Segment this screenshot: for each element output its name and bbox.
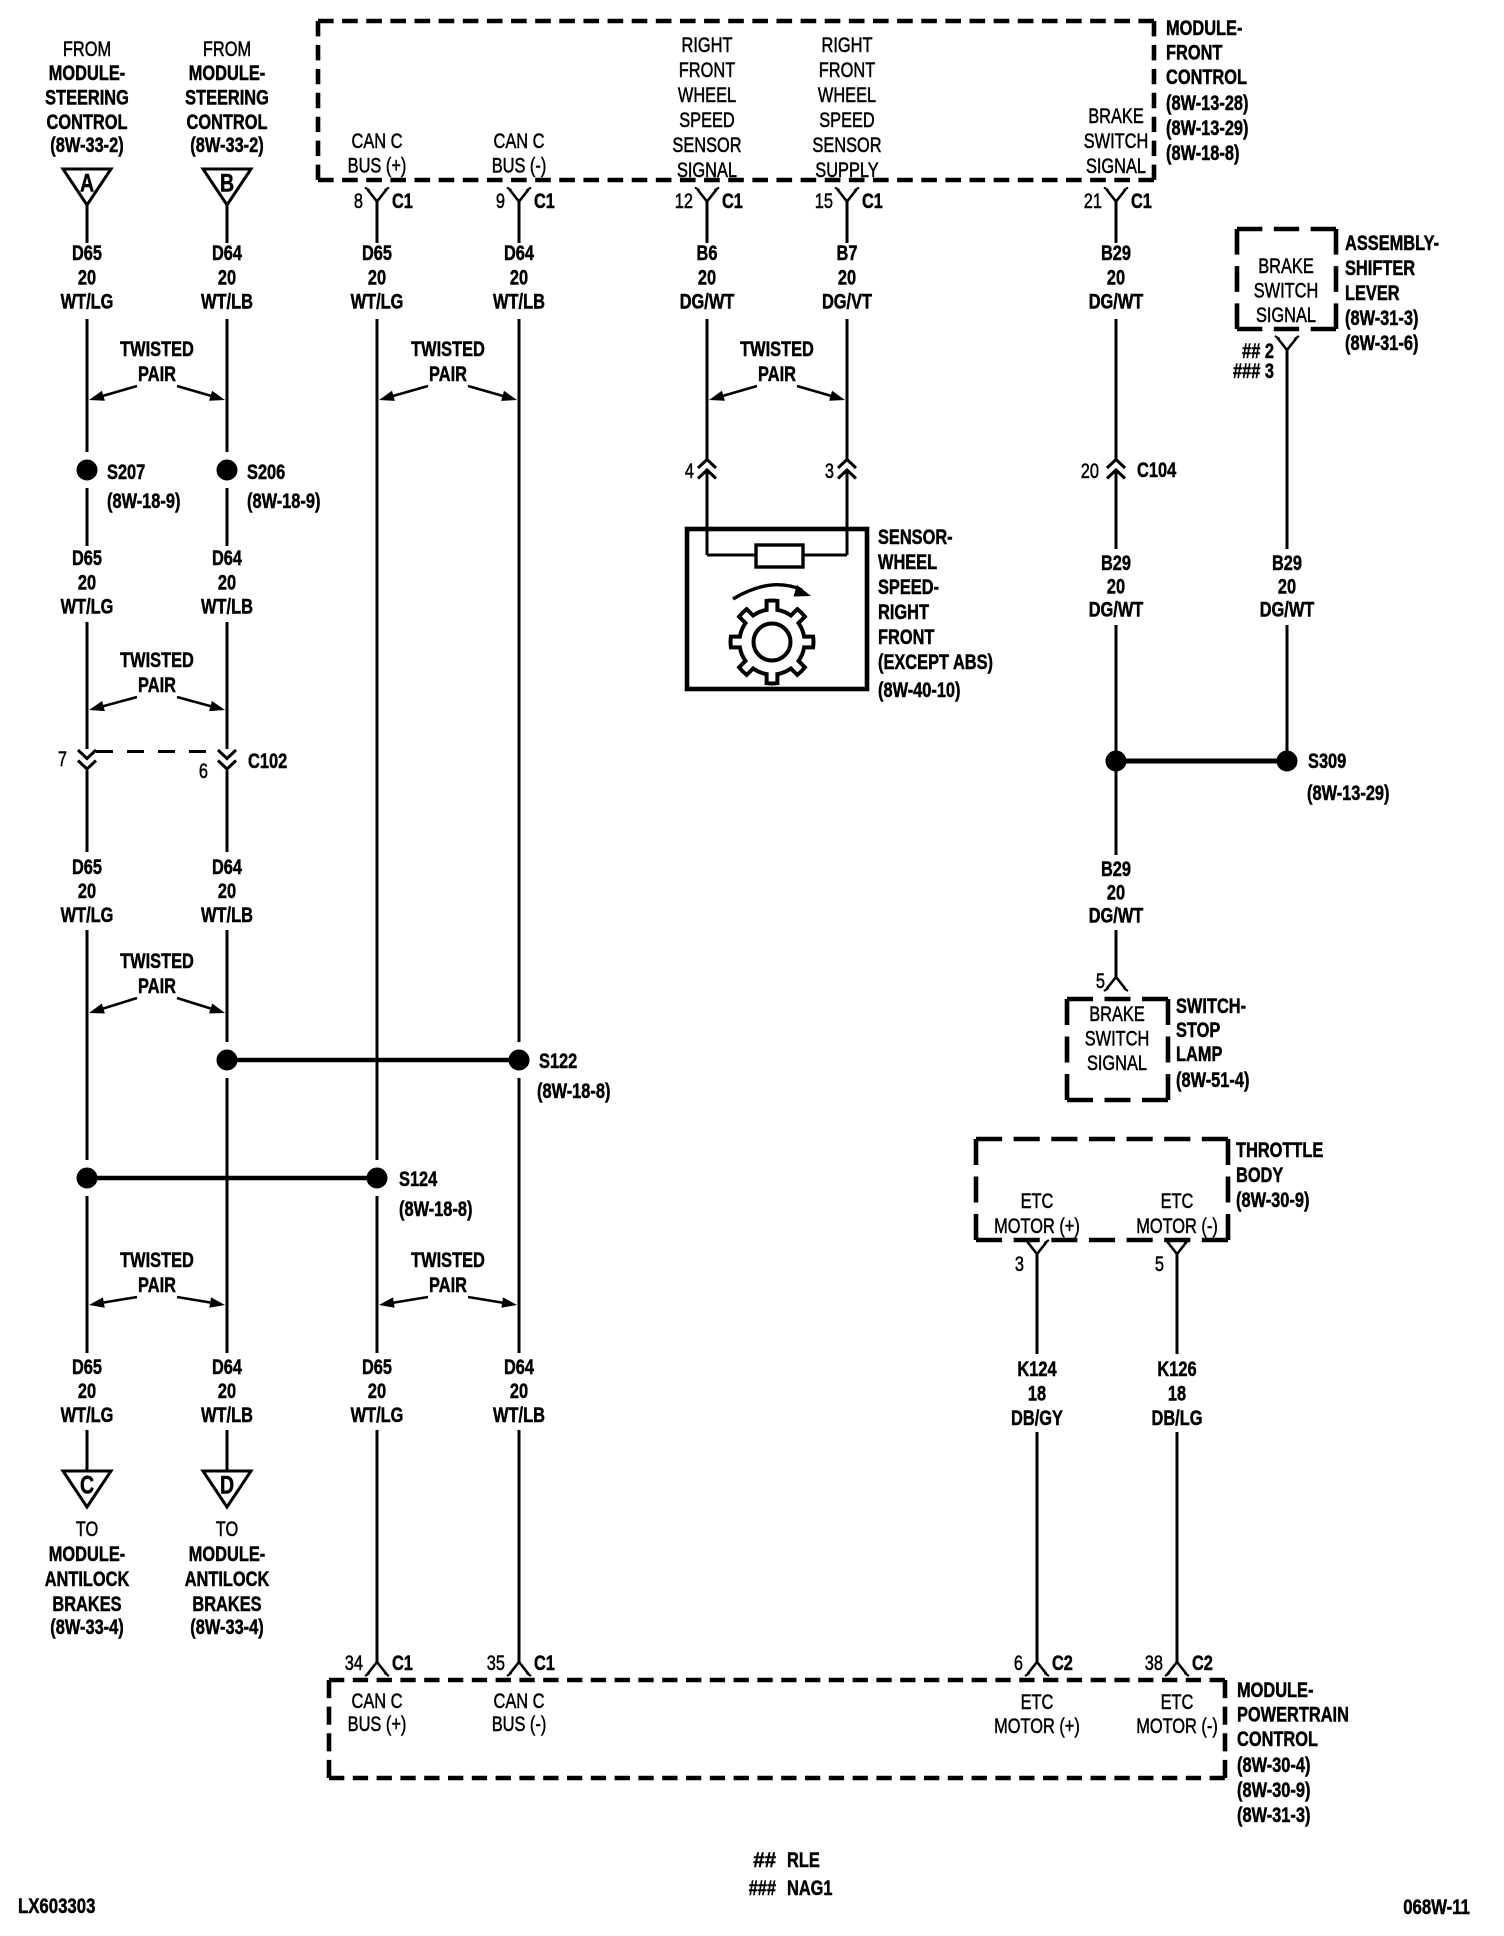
- wire B29 from label to stop lamp switch pin 5: [1115, 930, 1118, 977]
- wire K126 from throttle pin 5 to label: [1176, 1254, 1179, 1354]
- svg-text:12: 12: [675, 190, 693, 213]
- svg-text:20: 20: [1107, 266, 1125, 289]
- label: wire D65 20 WT/LG (col 1 third): [61, 856, 114, 927]
- svg-text:S309: S309: [1308, 750, 1346, 773]
- wire B29 from C104 to label: [1115, 470, 1118, 549]
- connector B (triangle from module-steering control): [203, 169, 251, 205]
- wire D65 from C102 to splice S124: [86, 771, 89, 1161]
- label: TWISTED PAIR note (bus upper): [379, 338, 517, 401]
- svg-text:BRAKE: BRAKE: [1088, 105, 1144, 128]
- label: SENSOR-WHEEL SPEED-RIGHT FRONT (EXCEPT ABS) (8W-40-10): [878, 526, 993, 702]
- svg-text:C1: C1: [392, 190, 413, 213]
- svg-text:MODULE-: MODULE-: [49, 62, 125, 85]
- svg-text:TWISTED: TWISTED: [411, 338, 485, 361]
- svg-text:FROM: FROM: [203, 38, 251, 61]
- svg-text:(8W-18-8): (8W-18-8): [1166, 142, 1239, 165]
- svg-text:5: 5: [1096, 970, 1105, 993]
- label: wire D64 20 WT/LB (col 2): [201, 242, 253, 314]
- label: wire B29 20 DG/WT (col 7 upper): [1089, 242, 1144, 314]
- svg-text:TWISTED: TWISTED: [411, 1249, 485, 1272]
- svg-text:WT/LB: WT/LB: [201, 1404, 253, 1427]
- svg-text:POWERTRAIN: POWERTRAIN: [1237, 1704, 1349, 1727]
- svg-text:STEERING: STEERING: [185, 87, 269, 110]
- wire B29 from label to splice S309: [1286, 625, 1289, 751]
- wire D64 from connector B to splice S206: [226, 205, 229, 452]
- svg-text:WHEEL: WHEEL: [878, 551, 937, 574]
- wire K124 from label to pin 6 C2: [1036, 1432, 1039, 1662]
- switch S1: SWITCH-STOP LAMP dashed box: [1067, 999, 1168, 1100]
- svg-text:(8W-31-3): (8W-31-3): [1345, 307, 1418, 330]
- svg-text:SUPPLY: SUPPLY: [815, 159, 878, 182]
- label: ASSEMBLY-SHIFTER LEVER title: [1345, 232, 1439, 355]
- svg-text:WT/LB: WT/LB: [201, 291, 253, 314]
- svg-text:PAIR: PAIR: [758, 363, 796, 386]
- splice S207: [77, 460, 145, 484]
- svg-text:RIGHT: RIGHT: [822, 34, 873, 57]
- svg-text:SHIFTER: SHIFTER: [1345, 257, 1415, 280]
- svg-text:LEVER: LEVER: [1345, 282, 1400, 305]
- svg-text:PAIR: PAIR: [138, 1274, 176, 1297]
- node A header: FROM MODULE-STEERING CONTROL (8W-33-2): [45, 38, 129, 157]
- svg-text:20: 20: [78, 266, 96, 289]
- svg-text:20: 20: [1081, 460, 1099, 483]
- svg-text:20: 20: [218, 266, 236, 289]
- svg-text:S122: S122: [539, 1050, 577, 1073]
- module U1: MODULE-FRONT CONTROL dashed box: [318, 21, 1154, 180]
- svg-text:TWISTED: TWISTED: [120, 950, 194, 973]
- svg-text:DG/WT: DG/WT: [1089, 291, 1144, 314]
- svg-text:SIGNAL: SIGNAL: [1086, 155, 1146, 178]
- label: wire B7 20 DG/VT: [822, 242, 872, 314]
- svg-text:BRAKES: BRAKES: [192, 1593, 261, 1616]
- svg-text:(8W-51-4): (8W-51-4): [1176, 1069, 1249, 1092]
- svg-text:D65: D65: [362, 242, 392, 265]
- svg-text:ANTILOCK: ANTILOCK: [45, 1568, 130, 1591]
- svg-text:WHEEL: WHEEL: [678, 84, 736, 107]
- svg-text:D64: D64: [212, 1356, 242, 1379]
- splice S124 junction line: [87, 1176, 377, 1181]
- svg-text:K126: K126: [1157, 1358, 1196, 1381]
- splice S122 junction line: [227, 1058, 519, 1063]
- svg-text:WT/LB: WT/LB: [493, 291, 545, 314]
- svg-text:(8W-30-4): (8W-30-4): [1237, 1754, 1310, 1777]
- label: TO MODULE-ANTILOCK BRAKES (8W-33-4) under D: [185, 1518, 270, 1639]
- label: MODULE-POWERTRAIN CONTROL title: [1237, 1679, 1349, 1827]
- sensor element rectangle: [756, 545, 803, 567]
- splice S309 dot right and label: [1277, 750, 1346, 773]
- splice S122 dot right: [509, 1050, 577, 1073]
- wire D65 from splice S124 to pin 34: [376, 1196, 379, 1662]
- svg-text:K124: K124: [1017, 1358, 1056, 1381]
- connector C102 pin 7 chevron: [58, 748, 96, 771]
- pin 9 C1 terminal on module-front control: [496, 188, 555, 214]
- svg-text:SWITCH: SWITCH: [1254, 280, 1319, 303]
- svg-text:TWISTED: TWISTED: [740, 338, 814, 361]
- module: MODULE-POWERTRAIN CONTROL dashed box: [329, 1680, 1225, 1778]
- svg-text:PAIR: PAIR: [138, 363, 176, 386]
- svg-text:###: ###: [749, 1877, 777, 1900]
- svg-text:SIGNAL: SIGNAL: [1087, 1052, 1147, 1075]
- svg-text:C2: C2: [1192, 1652, 1213, 1675]
- svg-text:WT/LB: WT/LB: [493, 1404, 545, 1427]
- pin 5 terminal on throttle body: [1155, 1240, 1189, 1276]
- svg-text:CAN C: CAN C: [352, 130, 403, 153]
- label: wire D65 20 WT/LG (col 1 bottom): [61, 1356, 114, 1427]
- label: MODULE-FRONT CONTROL title: [1166, 17, 1249, 165]
- wire D65 from connector A to splice S207: [86, 205, 89, 452]
- svg-text:CONTROL: CONTROL: [1166, 66, 1247, 89]
- svg-text:C2: C2: [1052, 1652, 1073, 1675]
- svg-text:D64: D64: [212, 242, 242, 265]
- label: wire B29 20 DG/WT (col 7 middle): [1089, 552, 1144, 622]
- svg-text:TO: TO: [216, 1518, 239, 1541]
- connector pin 4 chevron (sensor): [685, 460, 716, 484]
- svg-text:20: 20: [368, 266, 386, 289]
- svg-text:20: 20: [218, 571, 236, 594]
- svg-text:MOTOR (-): MOTOR (-): [1136, 1715, 1218, 1738]
- label: wire D65 20 WT/LG (col 1): [61, 242, 114, 314]
- svg-text:ASSEMBLY-: ASSEMBLY-: [1345, 232, 1439, 255]
- wire B29 from pin 21 to connector C104: [1115, 202, 1118, 460]
- wire B6 from pin 4 into sensor box: [706, 470, 709, 555]
- pin 15 C1 terminal on module-front control: [815, 188, 883, 214]
- wire B29 from label to splice S309: [1115, 625, 1118, 751]
- wire D64 from C102 to splice S122: [226, 771, 229, 1043]
- svg-text:SWITCH: SWITCH: [1084, 130, 1149, 153]
- svg-text:WHEEL: WHEEL: [818, 84, 876, 107]
- svg-text:PAIR: PAIR: [138, 975, 176, 998]
- wire B7 from pin 15 to sensor pin 3: [846, 202, 849, 460]
- svg-text:SWITCH: SWITCH: [1085, 1028, 1150, 1051]
- svg-text:C1: C1: [1131, 190, 1152, 213]
- pin 34 C1 terminal on powertrain control module: [345, 1652, 413, 1676]
- label: RIGHT FRONT WHEEL SPEED SENSOR SIGNAL pin function: [672, 34, 741, 182]
- svg-text:34: 34: [345, 1652, 363, 1675]
- svg-text:20: 20: [78, 571, 96, 594]
- svg-text:### 3: ### 3: [1233, 360, 1274, 383]
- connector A (triangle from module-steering control): [63, 169, 111, 205]
- svg-text:BODY: BODY: [1236, 1164, 1283, 1187]
- svg-text:WT/LG: WT/LG: [61, 291, 114, 314]
- wire K126 from label to pin 38 C2: [1176, 1432, 1179, 1662]
- svg-text:D65: D65: [362, 1356, 392, 1379]
- svg-text:MODULE-: MODULE-: [1237, 1679, 1313, 1702]
- connector pin 3 chevron (sensor): [825, 460, 856, 484]
- svg-text:B29: B29: [1101, 858, 1131, 881]
- svg-text:WT/LG: WT/LG: [61, 596, 114, 619]
- label: wire D65 20 WT/LG (col 3): [351, 242, 404, 314]
- svg-text:SENSOR: SENSOR: [812, 134, 881, 157]
- svg-text:20: 20: [78, 880, 96, 903]
- svg-text:CONTROL: CONTROL: [47, 111, 128, 134]
- wire D64 from splice S122 to connector D: [226, 1078, 229, 1471]
- svg-text:MOTOR (+): MOTOR (+): [994, 1715, 1080, 1738]
- svg-text:DG/VT: DG/VT: [822, 291, 872, 314]
- svg-text:(8W-30-9): (8W-30-9): [1237, 1779, 1310, 1802]
- svg-text:STEERING: STEERING: [45, 87, 129, 110]
- svg-text:6: 6: [199, 760, 208, 783]
- label: ETC MOTOR (+) on PCM: [994, 1691, 1080, 1738]
- svg-text:B6: B6: [697, 242, 718, 265]
- svg-text:C1: C1: [534, 190, 555, 213]
- svg-text:DG/WT: DG/WT: [680, 291, 735, 314]
- svg-text:WT/LG: WT/LG: [351, 291, 404, 314]
- svg-text:B: B: [220, 170, 234, 198]
- svg-text:SPEED-: SPEED-: [878, 576, 939, 599]
- svg-text:MODULE-: MODULE-: [49, 1543, 125, 1566]
- connector C102 pin 6 chevron and label: [199, 750, 287, 783]
- svg-text:(8W-18-8): (8W-18-8): [537, 1080, 610, 1103]
- svg-text:20: 20: [1107, 881, 1125, 904]
- wire B29 from splice S309 to label: [1115, 771, 1118, 855]
- svg-text:20: 20: [838, 266, 856, 289]
- sensor element (reluctor pickup) horizontal link: [707, 554, 847, 557]
- svg-text:D64: D64: [212, 856, 242, 879]
- pin 3 terminal on throttle body: [1015, 1240, 1049, 1276]
- svg-text:D65: D65: [72, 1356, 102, 1379]
- svg-text:RLE: RLE: [787, 1849, 820, 1872]
- svg-text:DG/WT: DG/WT: [1260, 599, 1315, 622]
- pin 35 C1 terminal on powertrain control module: [487, 1652, 555, 1676]
- svg-text:WT/LB: WT/LB: [201, 904, 253, 927]
- label: wire D64 20 WT/LB (col 2 bottom): [201, 1356, 253, 1427]
- svg-text:MOTOR (-): MOTOR (-): [1136, 1215, 1218, 1238]
- svg-text:20: 20: [1278, 575, 1296, 598]
- svg-text:C1: C1: [722, 190, 743, 213]
- svg-text:C104: C104: [1137, 459, 1176, 482]
- svg-text:C1: C1: [392, 1652, 413, 1675]
- svg-text:PAIR: PAIR: [429, 1274, 467, 1297]
- svg-text:DG/WT: DG/WT: [1089, 905, 1144, 928]
- svg-text:(8W-40-10): (8W-40-10): [878, 679, 961, 702]
- svg-text:3: 3: [825, 460, 834, 483]
- svg-text:D64: D64: [504, 1356, 534, 1379]
- svg-text:6: 6: [1014, 1652, 1023, 1675]
- label: wire K124 18 DB/GY: [1011, 1358, 1063, 1430]
- svg-text:15: 15: [815, 190, 833, 213]
- connector C104 pin 20 chevron: [1081, 459, 1177, 483]
- module: ASSEMBLY-SHIFTER LEVER dashed box: [1237, 229, 1336, 329]
- svg-text:38: 38: [1145, 1652, 1163, 1675]
- splice S206: [217, 460, 285, 484]
- splice S124 dot left: [77, 1168, 97, 1188]
- svg-text:PAIR: PAIR: [138, 674, 176, 697]
- svg-text:20: 20: [218, 880, 236, 903]
- label: SWITCH-STOP LAMP title: [1176, 995, 1249, 1092]
- svg-text:TWISTED: TWISTED: [120, 649, 194, 672]
- svg-text:S124: S124: [399, 1168, 438, 1191]
- svg-text:5: 5: [1155, 1253, 1164, 1276]
- svg-text:(8W-13-29): (8W-13-29): [1307, 782, 1390, 805]
- svg-text:DB/GY: DB/GY: [1011, 1407, 1063, 1430]
- wire D64 from splice S206 to connector C102 pin 6: [226, 488, 229, 749]
- svg-text:NAG1: NAG1: [787, 1877, 833, 1900]
- pin 5 terminal on stop lamp switch: [1096, 970, 1128, 993]
- svg-text:BRAKE: BRAKE: [1089, 1003, 1145, 1026]
- pin 6 C2 terminal on powertrain control module: [1014, 1652, 1073, 1676]
- svg-text:(8W-33-4): (8W-33-4): [50, 1616, 123, 1639]
- label: wire K126 18 DB/LG: [1152, 1358, 1203, 1430]
- svg-text:ETC: ETC: [1021, 1691, 1054, 1714]
- pin 12 C1 terminal on module-front control: [675, 188, 743, 214]
- label: TWISTED PAIR note (A-B upper): [89, 338, 225, 401]
- svg-text:ETC: ETC: [1021, 1190, 1054, 1213]
- svg-text:BUS (-): BUS (-): [492, 155, 547, 178]
- svg-text:35: 35: [487, 1652, 505, 1675]
- svg-text:BRAKE: BRAKE: [1258, 255, 1314, 278]
- svg-text:TWISTED: TWISTED: [120, 1249, 194, 1272]
- svg-text:7: 7: [58, 748, 67, 771]
- svg-text:20: 20: [218, 1380, 236, 1403]
- svg-text:D64: D64: [212, 547, 242, 570]
- svg-text:RIGHT: RIGHT: [878, 601, 929, 624]
- svg-text:WT/LG: WT/LG: [61, 904, 114, 927]
- svg-text:C1: C1: [862, 190, 883, 213]
- label: TWISTED PAIR note (A-B third): [89, 950, 225, 1014]
- svg-text:SIGNAL: SIGNAL: [677, 159, 737, 182]
- label: THROTTLE BODY (8W-30-9) title: [1236, 1139, 1323, 1212]
- svg-text:DB/LG: DB/LG: [1152, 1407, 1203, 1430]
- wire D64 from splice S122 to pin 35: [518, 1078, 521, 1662]
- svg-text:C1: C1: [534, 1652, 555, 1675]
- svg-text:20: 20: [510, 266, 528, 289]
- svg-text:SWITCH-: SWITCH-: [1176, 995, 1246, 1018]
- label: wire D64 20 WT/LB (col 2 third): [201, 856, 253, 927]
- svg-text:18: 18: [1028, 1383, 1046, 1406]
- svg-text:(8W-31-6): (8W-31-6): [1345, 332, 1418, 355]
- splice S309 dot left: [1106, 751, 1126, 771]
- svg-text:(8W-13-28): (8W-13-28): [1166, 92, 1249, 115]
- svg-text:ETC: ETC: [1161, 1190, 1194, 1213]
- svg-text:20: 20: [510, 1380, 528, 1403]
- pin 2 / 3 terminal on shifter lever: [1233, 336, 1299, 383]
- label: ETC MOTOR (-) on PCM: [1136, 1691, 1218, 1738]
- svg-text:MOTOR (+): MOTOR (+): [994, 1215, 1080, 1238]
- label: wire B6 20 DG/WT: [680, 242, 735, 314]
- svg-text:B7: B7: [837, 242, 858, 265]
- label: TWISTED PAIR note (sensor): [709, 338, 845, 401]
- splice S124 dot right: [367, 1168, 438, 1191]
- connector D (triangle to module-antilock brakes): [203, 1471, 251, 1507]
- svg-text:068W-11: 068W-11: [1403, 1895, 1470, 1919]
- svg-text:BRAKES: BRAKES: [52, 1593, 121, 1616]
- label: TWISTED PAIR note (A-B second): [89, 649, 225, 711]
- label: wire D64 20 WT/LB (col 4): [493, 242, 545, 314]
- svg-text:4: 4: [685, 460, 694, 483]
- svg-text:FRONT: FRONT: [819, 59, 876, 82]
- label: CAN C BUS (-) on PCM: [492, 1690, 547, 1736]
- svg-text:S206: S206: [247, 461, 285, 484]
- svg-text:FRONT: FRONT: [878, 626, 935, 649]
- svg-text:18: 18: [1168, 1383, 1186, 1406]
- svg-text:C102: C102: [248, 750, 287, 773]
- svg-text:B29: B29: [1101, 242, 1131, 265]
- svg-text:RIGHT: RIGHT: [682, 34, 733, 57]
- svg-text:(8W-18-9): (8W-18-9): [107, 490, 180, 513]
- svg-text:(8W-18-9): (8W-18-9): [247, 490, 320, 513]
- svg-text:A: A: [80, 170, 94, 198]
- svg-text:C: C: [80, 1472, 94, 1500]
- label: wire D64 20 WT/LB (col 2 second): [201, 547, 253, 619]
- connector C (triangle to module-antilock brakes): [63, 1471, 111, 1507]
- label: CAN C BUS (+) pin function: [348, 130, 407, 178]
- svg-text:WT/LB: WT/LB: [201, 596, 253, 619]
- svg-text:MODULE-: MODULE-: [189, 1543, 265, 1566]
- svg-text:D65: D65: [72, 856, 102, 879]
- wire D65 from pin 8 down to splice S124: [376, 202, 379, 1161]
- svg-text:(8W-33-4): (8W-33-4): [190, 1616, 263, 1639]
- label: RIGHT FRONT WHEEL SPEED SENSOR SUPPLY pin function: [812, 34, 881, 182]
- sensor tone wheel gear: [731, 601, 814, 684]
- splice S309 junction line: [1126, 759, 1277, 764]
- label: TO MODULE-ANTILOCK BRAKES (8W-33-4) under C: [45, 1518, 130, 1639]
- svg-text:FROM: FROM: [63, 38, 111, 61]
- svg-text:FRONT: FRONT: [1166, 42, 1223, 65]
- svg-text:3: 3: [1015, 1253, 1024, 1276]
- svg-text:B29: B29: [1272, 552, 1302, 575]
- wire D65 from splice S124 to connector C: [86, 1196, 89, 1471]
- svg-text:21: 21: [1084, 190, 1102, 213]
- label: wire D64 20 WT/LB (col 4 bottom): [493, 1356, 545, 1427]
- svg-text:CONTROL: CONTROL: [1237, 1728, 1318, 1751]
- svg-text:(8W-31-3): (8W-31-3): [1237, 1804, 1310, 1827]
- svg-text:B29: B29: [1101, 552, 1131, 575]
- svg-text:ETC: ETC: [1161, 1691, 1194, 1714]
- svg-text:CAN C: CAN C: [494, 1690, 545, 1713]
- svg-text:20: 20: [78, 1380, 96, 1403]
- svg-text:WT/LG: WT/LG: [351, 1404, 404, 1427]
- svg-text:TWISTED: TWISTED: [120, 338, 194, 361]
- svg-text:CONTROL: CONTROL: [187, 111, 268, 134]
- label: CAN C BUS (+) on PCM: [348, 1690, 407, 1736]
- svg-text:(8W-30-9): (8W-30-9): [1236, 1189, 1309, 1212]
- wire D65 from splice S207 to connector C102 pin 7: [86, 488, 89, 749]
- svg-text:(8W-33-2): (8W-33-2): [190, 134, 263, 157]
- svg-text:TO: TO: [76, 1518, 99, 1541]
- svg-text:D65: D65: [72, 547, 102, 570]
- svg-text:CAN C: CAN C: [352, 1690, 403, 1713]
- svg-text:SIGNAL: SIGNAL: [1256, 304, 1316, 327]
- label: TWISTED PAIR note (bus lower): [379, 1249, 517, 1308]
- pin 8 C1 terminal on module-front control: [354, 188, 413, 214]
- svg-text:LX603303: LX603303: [18, 1894, 95, 1918]
- svg-text:MODULE-: MODULE-: [189, 62, 265, 85]
- svg-text:20: 20: [1107, 575, 1125, 598]
- svg-text:9: 9: [496, 190, 505, 213]
- svg-text:SPEED: SPEED: [819, 109, 875, 132]
- svg-text:D64: D64: [504, 242, 534, 265]
- wire B29 from shifter lever to label: [1286, 350, 1289, 549]
- svg-text:BUS (+): BUS (+): [348, 1713, 407, 1736]
- svg-text:(EXCEPT ABS): (EXCEPT ABS): [878, 651, 993, 674]
- svg-text:8: 8: [354, 190, 363, 213]
- label: wire D65 20 WT/LG (col 1 second): [61, 547, 114, 619]
- svg-text:D65: D65: [72, 242, 102, 265]
- svg-text:STOP: STOP: [1176, 1019, 1220, 1042]
- svg-text:(8W-33-2): (8W-33-2): [50, 134, 123, 157]
- node B header: FROM MODULE-STEERING CONTROL (8W-33-2): [185, 38, 269, 157]
- label: BRAKE SWITCH SIGNAL pin function: [1084, 105, 1149, 178]
- svg-text:LAMP: LAMP: [1176, 1043, 1222, 1066]
- svg-text:S207: S207: [107, 461, 145, 484]
- wire D64 from pin 9 down to splice S122: [518, 202, 521, 1043]
- label: wire B29 20 DG/WT (col 7 lower): [1089, 858, 1144, 928]
- svg-text:##: ##: [753, 1849, 776, 1872]
- connector C102 dashed link line: [96, 750, 218, 753]
- svg-text:(8W-18-8): (8W-18-8): [399, 1198, 472, 1221]
- svg-text:20: 20: [368, 1380, 386, 1403]
- svg-text:PAIR: PAIR: [429, 363, 467, 386]
